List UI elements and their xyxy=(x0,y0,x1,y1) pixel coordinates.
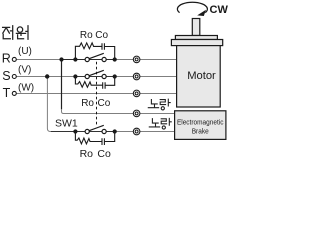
switch contact (SW1) xyxy=(85,129,89,133)
wire R line xyxy=(16,59,176,61)
svg-text:Ro: Ro xyxy=(80,30,93,41)
svg-text:Ro: Ro xyxy=(81,98,94,109)
svg-text:Electromagnetic: Electromagnetic xyxy=(177,118,224,127)
switch blade (R phase) xyxy=(89,53,104,58)
resistor Ro + capacitor Co branch (SW1 row, below line) xyxy=(75,132,114,146)
terminal S xyxy=(12,75,16,79)
svg-text:(W): (W) xyxy=(18,82,34,93)
motor flange xyxy=(171,40,222,46)
terminal T xyxy=(12,91,16,95)
motor body xyxy=(177,46,221,107)
wire switch segment SW1 row (dark) xyxy=(51,131,115,133)
junction dots SW1 line xyxy=(73,129,77,133)
svg-text:Brake: Brake xyxy=(192,127,209,136)
switch blade (S phase) xyxy=(89,70,104,75)
svg-text:Co: Co xyxy=(98,98,111,109)
electromagnetic brake box xyxy=(175,111,226,140)
connector T xyxy=(133,90,140,97)
wire brake feed elbow to brake row 1 xyxy=(62,109,175,114)
label 전원 (power) xyxy=(3,26,28,39)
label 노랑 row 2 xyxy=(149,118,171,129)
dashed mechanical link xyxy=(96,62,98,126)
switch contact (R phase) xyxy=(85,57,89,61)
svg-text:Co: Co xyxy=(97,148,111,160)
svg-text:CW: CW xyxy=(210,4,229,16)
wire T line xyxy=(16,93,177,95)
terminal R xyxy=(12,57,16,61)
svg-text:T: T xyxy=(3,86,11,100)
switch contact (S phase) xyxy=(85,74,89,78)
motor upper plate xyxy=(175,36,217,40)
wire S line xyxy=(16,76,176,78)
wire brake feed from R (black vertical) xyxy=(61,60,63,110)
junction dots S line xyxy=(45,74,49,78)
switch blade (SW1) xyxy=(89,125,104,130)
svg-text:Ro: Ro xyxy=(80,148,94,160)
resistor Ro + capacitor Co branch (R phase, above line) xyxy=(75,43,114,60)
svg-text:SW1: SW1 xyxy=(55,118,78,130)
connector brake 1 xyxy=(133,110,140,117)
resistor Ro + capacitor Co branch (S phase, below line) xyxy=(75,77,114,89)
svg-text:Co: Co xyxy=(95,30,108,41)
CW rotation arrow xyxy=(177,2,207,12)
svg-text:Motor: Motor xyxy=(187,70,216,82)
junction dots R line xyxy=(59,57,63,61)
wire switch segment S row (dark) xyxy=(75,76,114,78)
label 노랑 (yellow) row 1 xyxy=(148,99,170,110)
svg-text:(V): (V) xyxy=(18,64,31,75)
svg-text:(U): (U) xyxy=(18,46,32,57)
motor shaft xyxy=(192,19,200,36)
connector brake 2 xyxy=(133,128,140,135)
connector R xyxy=(133,56,140,63)
svg-text:S: S xyxy=(2,69,10,83)
svg-text:R: R xyxy=(2,52,11,66)
connector S xyxy=(133,73,140,80)
wire switch segment R row (dark) xyxy=(62,59,115,61)
wire brake feed from S (gray vertical + elbow to SW1 row) xyxy=(47,77,174,132)
CW arrowhead xyxy=(197,10,206,16)
